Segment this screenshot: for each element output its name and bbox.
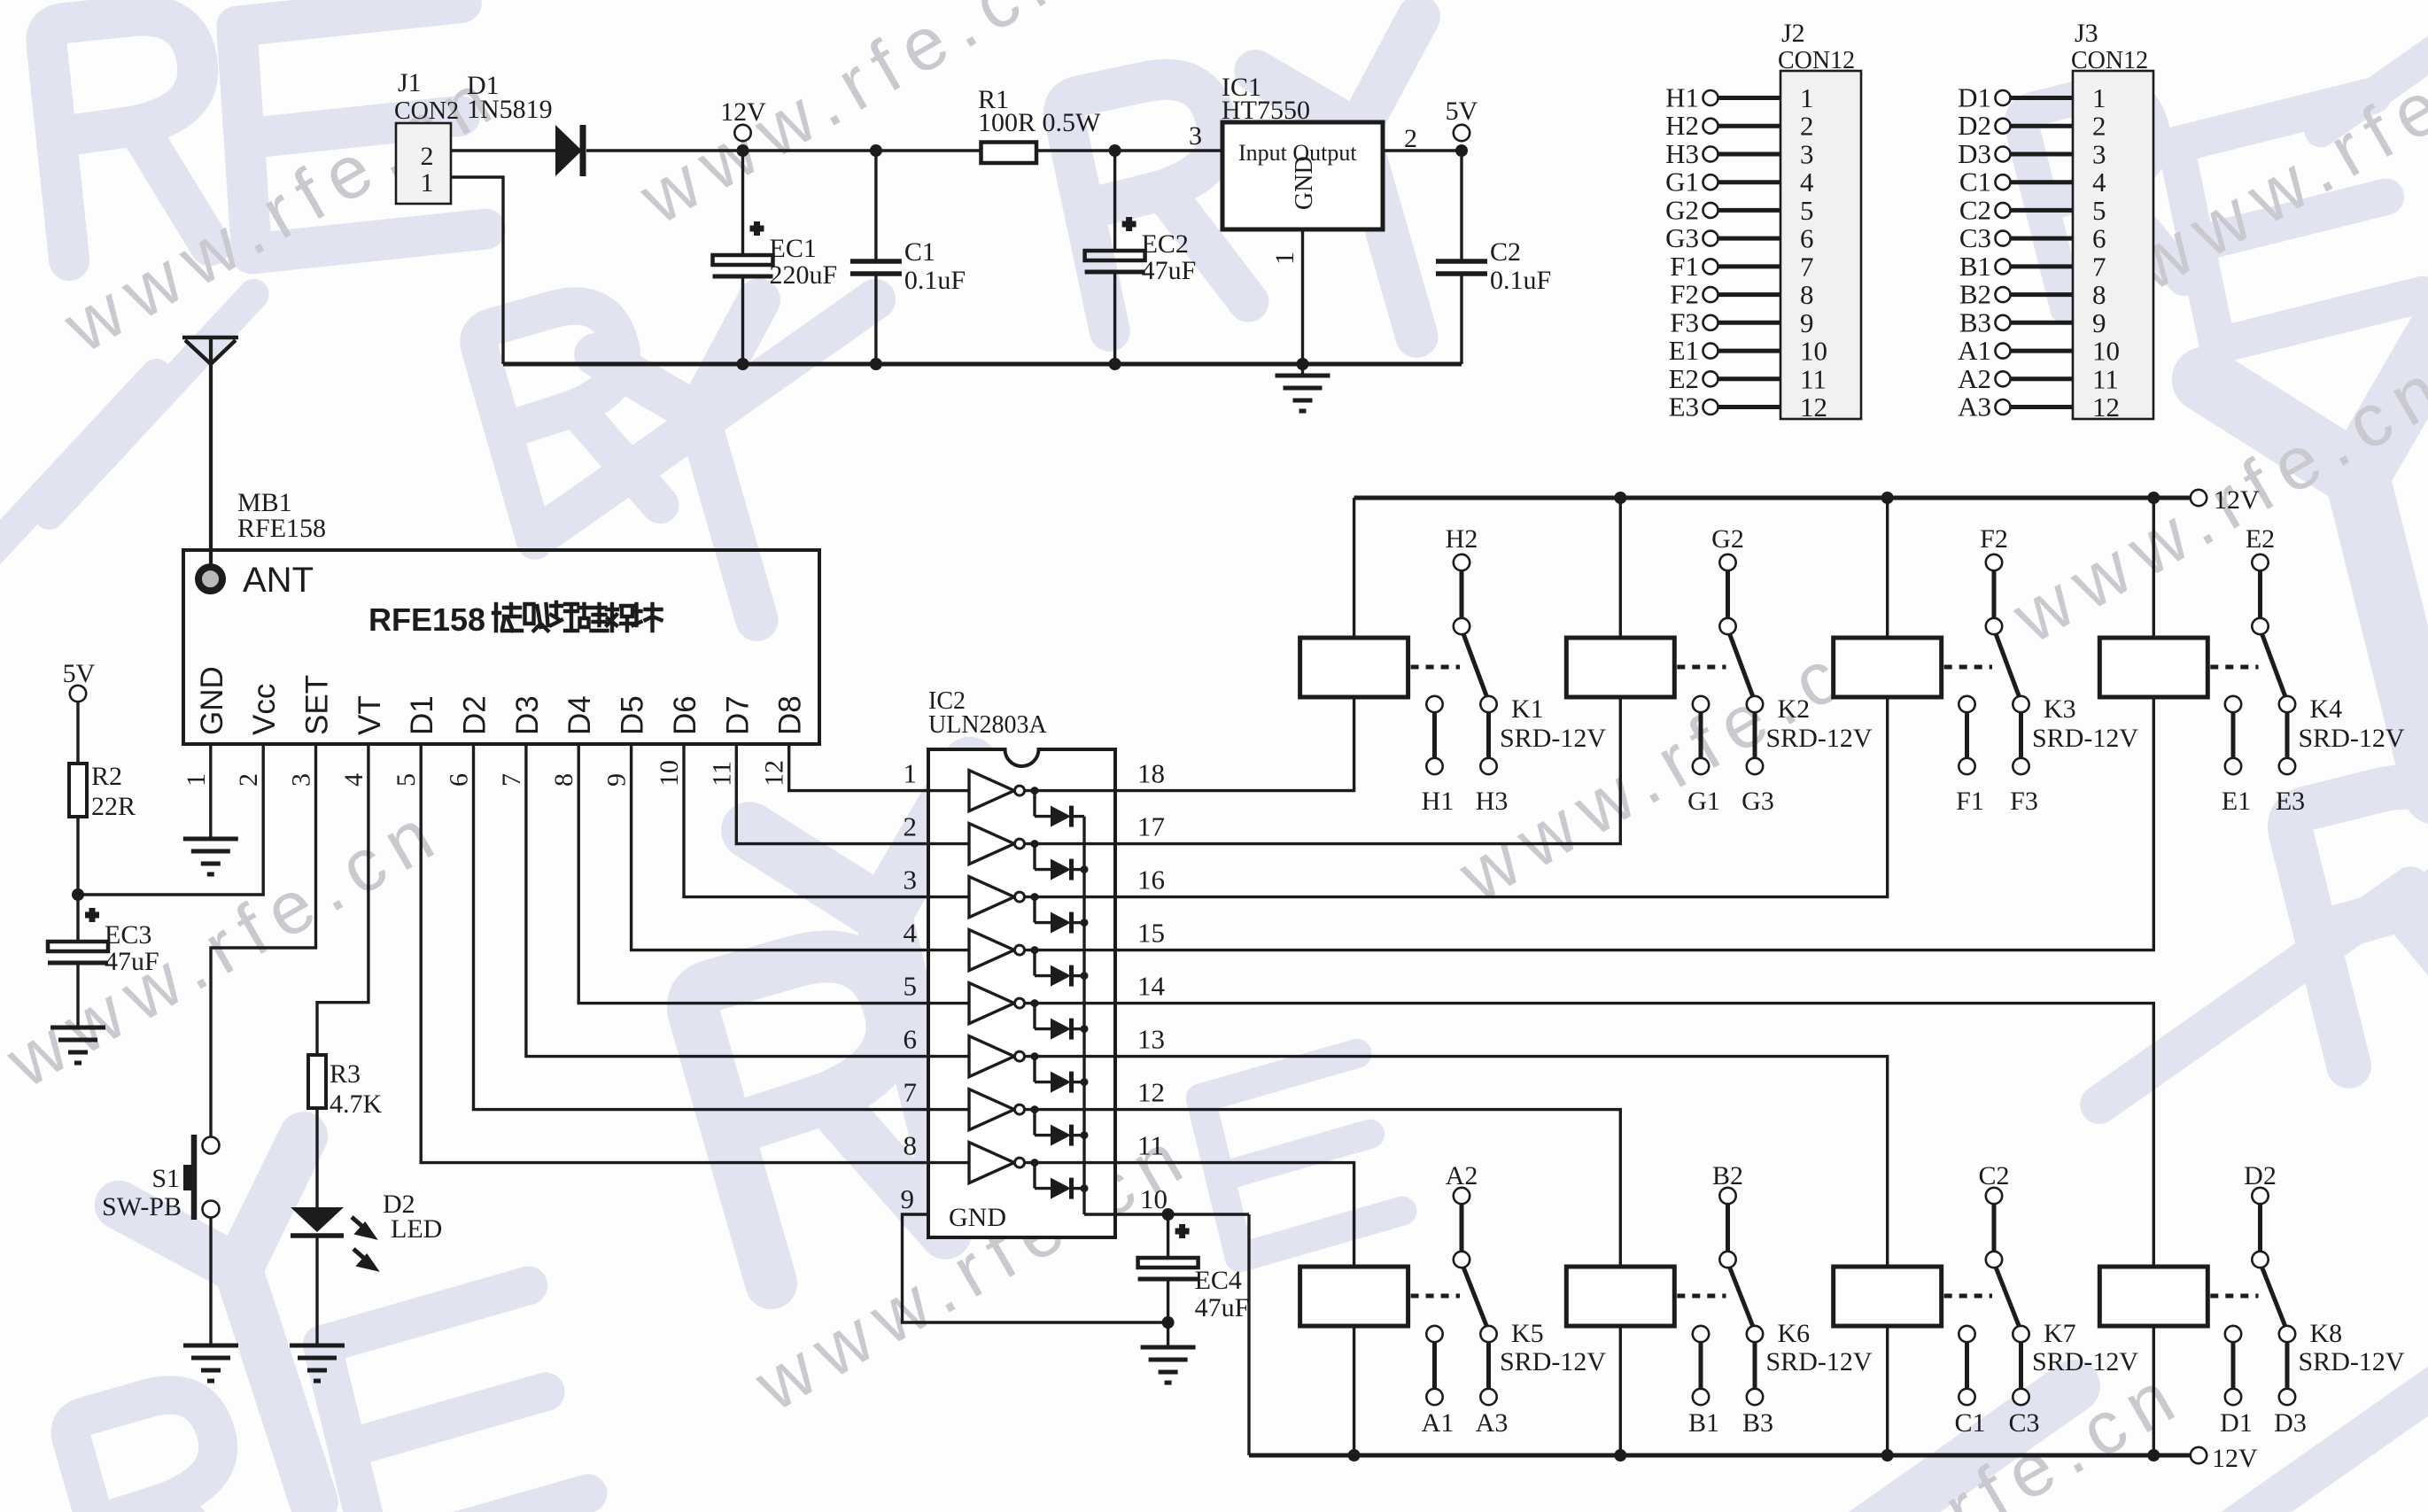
svg-text:HT7550: HT7550: [1222, 96, 1310, 125]
ground symbol (D2): [290, 1345, 345, 1381]
relay K5 coil: [1300, 1267, 1408, 1326]
svg-text:6: 6: [2092, 223, 2106, 254]
antenna: [182, 336, 238, 340]
svg-text:D1: D1: [2220, 1408, 2253, 1438]
clamp diode 6: [1031, 1052, 1039, 1060]
relay K4 contact E3: [2279, 696, 2295, 712]
ground symbol (MB1 GND): [183, 839, 238, 874]
dashed link K7: [1944, 1294, 1992, 1299]
wire S1 to ground: [209, 1217, 212, 1345]
diode common bus: [1082, 817, 1085, 1214]
svg-text:E2: E2: [2246, 524, 2275, 554]
clamp diode 5: [1031, 999, 1039, 1007]
svg-text:8: 8: [1800, 279, 1814, 310]
svg-text:K4: K4: [2310, 694, 2343, 724]
svg-text:0.1uF: 0.1uF: [1490, 266, 1551, 295]
svg-text:17: 17: [1137, 811, 1165, 842]
svg-text:D2: D2: [2244, 1161, 2277, 1190]
svg-text:4: 4: [1800, 167, 1814, 198]
svg-text:D6: D6: [668, 695, 702, 735]
svg-text:9: 9: [2092, 307, 2106, 338]
wire K3 coil to IC2 pin16: [1115, 697, 1888, 897]
svg-text:C1: C1: [1959, 167, 1991, 198]
wire J3 pin2: [2011, 124, 2074, 128]
svg-text:D2: D2: [458, 695, 493, 735]
svg-text:G3: G3: [1741, 787, 1774, 816]
svg-text:1: 1: [421, 168, 434, 198]
relay K2 pivot: [1719, 618, 1735, 634]
wire J2 pin5: [1718, 208, 1781, 213]
wire MB1 D1 to IC2 pin8: [421, 744, 928, 1163]
node EC4 top: [1162, 1208, 1175, 1221]
terminal A2: [1996, 371, 2011, 386]
svg-text:E3: E3: [2276, 787, 2305, 816]
capacitor EC1 220uF: [741, 151, 744, 255]
svg-text:GND: GND: [1291, 156, 1318, 210]
wire MB1 GND pin: [209, 744, 212, 839]
relay K8 contact D3: [2279, 1326, 2295, 1342]
buffer channel 4: [928, 949, 969, 951]
svg-text:15: 15: [1137, 918, 1165, 949]
relay K5 contact A1: [1426, 1326, 1442, 1342]
relay K8 moving arm: [2262, 1268, 2286, 1329]
svg-text:D5: D5: [616, 695, 650, 735]
wire J3 pin10: [2011, 349, 2074, 353]
svg-text:B1: B1: [1959, 251, 1991, 282]
svg-text:F2: F2: [1670, 279, 1699, 310]
svg-text:4: 4: [904, 918, 918, 949]
capacitor C1 0.1uF: [874, 151, 877, 261]
svg-text:K5: K5: [1511, 1319, 1544, 1348]
terminal C3: [1996, 231, 2011, 246]
svg-text:H2: H2: [1446, 524, 1478, 554]
svg-text:1: 1: [2092, 82, 2106, 113]
buffer channel 5: [928, 1002, 969, 1004]
svg-text:C2: C2: [1978, 1161, 2009, 1190]
svg-text:SRD-12V: SRD-12V: [2299, 724, 2405, 753]
clamp diode 4: [1031, 946, 1039, 954]
wire 12V rail to K2 coil: [1614, 492, 1626, 504]
wire J2 pin10: [1718, 349, 1781, 353]
svg-text:C3: C3: [2008, 1408, 2039, 1438]
terminal D3: [1996, 147, 2011, 162]
svg-text:G3: G3: [1665, 222, 1699, 253]
wire J3 pin1: [2011, 96, 2074, 100]
svg-text:D1: D1: [405, 695, 439, 735]
svg-text:100R 0.5W: 100R 0.5W: [978, 108, 1101, 137]
relay K3 pivot: [1986, 618, 2002, 634]
wire IC2 pin13 to K7 coil: [1115, 1057, 1888, 1267]
wire R3 to D2: [315, 1108, 318, 1207]
buffer channel 3: [928, 896, 969, 898]
svg-text:5V: 5V: [1446, 97, 1478, 126]
node C1 top: [870, 144, 882, 157]
wire IC1 pin2 to 5V node: [1383, 149, 1462, 151]
wire J1 pin2 to D1: [451, 149, 555, 151]
ground symbol (power): [1301, 364, 1304, 376]
svg-text:12: 12: [1800, 392, 1827, 423]
svg-text:E3: E3: [1669, 392, 1699, 423]
svg-text:10: 10: [2092, 336, 2120, 367]
svg-text:10: 10: [1800, 336, 1827, 367]
svg-text:VT: VT: [353, 695, 387, 735]
clamp diode 8: [1031, 1159, 1039, 1167]
svg-text:GND: GND: [949, 1203, 1006, 1232]
wire MB1 D5 to IC2 pin4: [632, 744, 928, 950]
capacitor EC4 47uF: [1167, 1214, 1169, 1258]
ANT pin: [198, 567, 222, 591]
relay K3 moving arm: [1996, 634, 2020, 699]
svg-text:11: 11: [1800, 363, 1827, 394]
terminal A3: [1996, 399, 2011, 415]
wire J2 pin3: [1718, 152, 1781, 157]
svg-text:10: 10: [1140, 1183, 1167, 1214]
svg-text:D2: D2: [1958, 110, 1991, 141]
svg-text:12V: 12V: [720, 97, 766, 127]
relay K1 moving arm: [1463, 634, 1487, 699]
wire IC2 pin10 (COM): [1115, 1213, 1249, 1215]
wire K8 coil to 12V rail: [2153, 1326, 2155, 1455]
capacitor EC2 47uF: [1113, 151, 1116, 251]
svg-text:A2: A2: [1446, 1161, 1478, 1190]
svg-text:A1: A1: [1422, 1408, 1454, 1438]
svg-text:A1: A1: [1958, 335, 1991, 366]
relay K3 contact F1: [1959, 696, 1974, 712]
svg-text:8: 8: [549, 773, 578, 787]
svg-text:7: 7: [1800, 251, 1814, 282]
svg-text:K8: K8: [2310, 1319, 2343, 1348]
svg-text:9: 9: [602, 773, 632, 787]
wire J2 pin6: [1718, 236, 1781, 241]
svg-text:F1: F1: [1956, 787, 1984, 816]
svg-text:6: 6: [904, 1024, 918, 1055]
node rail IC1 gnd: [1297, 358, 1309, 370]
svg-text:B2: B2: [1712, 1161, 1743, 1190]
relay K8 pivot: [2252, 1252, 2268, 1268]
svg-text:D8: D8: [773, 695, 808, 735]
svg-text:D7: D7: [720, 695, 755, 735]
relay K7 pivot: [1986, 1252, 2002, 1268]
relay K4 contact E1: [2225, 696, 2241, 712]
relay K6 coil: [1566, 1267, 1674, 1326]
relay K4 coil: [2099, 638, 2207, 697]
svg-text:G2: G2: [1711, 524, 1744, 554]
wire 12V rail to K4 coil: [2147, 492, 2160, 504]
svg-text:9: 9: [1800, 307, 1814, 338]
node 12V junction: [737, 144, 749, 157]
terminal E3: [1703, 399, 1718, 415]
dashed link K6: [1677, 1294, 1726, 1299]
svg-text:H3: H3: [1476, 787, 1509, 816]
switch S1 SW-PB: [203, 1137, 220, 1154]
svg-text:C3: C3: [1959, 222, 1991, 253]
svg-text:B2: B2: [1959, 279, 1991, 310]
relay K7 coil: [1834, 1267, 1942, 1326]
svg-text:H2: H2: [1665, 110, 1699, 141]
svg-text:13: 13: [1137, 1024, 1165, 1055]
ground symbol (EC3): [50, 1027, 105, 1063]
svg-text:7: 7: [497, 773, 526, 787]
relay K4 moving arm: [2262, 634, 2286, 699]
wire MB1 SET to S1: [211, 744, 316, 1137]
connector J1: [396, 123, 451, 204]
svg-text:14: 14: [1137, 971, 1166, 1002]
svg-text:D1: D1: [1958, 82, 1991, 113]
wire J2 pin12: [1718, 405, 1781, 409]
node 5V/EC3: [72, 888, 84, 901]
svg-text:3: 3: [1189, 121, 1202, 151]
LED D2: [291, 1207, 344, 1232]
resistor R3 4.7K: [308, 1055, 326, 1108]
svg-text:F3: F3: [1670, 306, 1699, 337]
dashed link K3: [1944, 665, 1992, 670]
svg-text:9: 9: [901, 1183, 915, 1214]
wire MB1 D8 to IC2 pin1: [789, 744, 928, 791]
buffer channel 8: [928, 1161, 969, 1164]
dashed link K1: [1411, 665, 1460, 670]
wire 12V node to R1: [743, 149, 981, 151]
svg-text:SRD-12V: SRD-12V: [2299, 1347, 2405, 1376]
svg-text:LED: LED: [391, 1214, 442, 1244]
buffer channel 6: [928, 1055, 969, 1058]
svg-text:11: 11: [707, 761, 736, 787]
terminal C1: [1996, 174, 2011, 190]
terminal B3: [1996, 315, 2011, 330]
terminal D2: [1996, 119, 2011, 134]
dashed link K2: [1677, 665, 1726, 670]
regulator IC1 HT7550: [1222, 122, 1383, 229]
wire K2 coil to IC2 pin17: [1115, 697, 1620, 844]
svg-text:RFE158: RFE158: [368, 601, 485, 638]
relay K1 contact H1: [1426, 696, 1442, 712]
svg-text:RFE158: RFE158: [237, 514, 326, 543]
relay K1 pivot: [1454, 618, 1470, 634]
svg-text:SRD-12V: SRD-12V: [1500, 724, 1606, 753]
svg-text:GND: GND: [195, 666, 229, 735]
terminal F2: [1703, 287, 1718, 302]
svg-text:7: 7: [904, 1077, 918, 1108]
svg-text:K3: K3: [2044, 694, 2076, 724]
wire IC2 COM to bottom rail: [1247, 1214, 1250, 1455]
svg-text:16: 16: [1137, 865, 1165, 896]
svg-text:J2: J2: [1781, 19, 1805, 48]
relay K1 coil: [1300, 638, 1408, 697]
svg-text:CON2: CON2: [394, 97, 459, 125]
svg-text:J3: J3: [2075, 19, 2098, 48]
terminal D1: [1996, 90, 2011, 105]
svg-text:EC3: EC3: [105, 920, 151, 950]
relay K6 pivot: [1719, 1252, 1735, 1268]
wire MB1 D7 to IC2 pin2: [736, 744, 928, 844]
svg-text:J1: J1: [398, 68, 422, 97]
wire K1 coil to IC2 pin18: [1115, 697, 1354, 791]
wire J3 pin4: [2011, 180, 2074, 184]
terminal E1: [1703, 344, 1718, 359]
svg-text:6: 6: [1800, 223, 1814, 254]
relay K2 coil: [1566, 638, 1674, 697]
svg-text:3: 3: [287, 773, 316, 787]
terminal A1: [1996, 344, 2011, 359]
ground rail (power section): [503, 362, 1462, 367]
capacitor EC3 47uF: [85, 908, 99, 922]
clamp diode 7: [1031, 1105, 1039, 1113]
svg-text:3: 3: [904, 865, 918, 896]
svg-text:10: 10: [655, 760, 684, 787]
clamp diode 1: [1031, 787, 1039, 795]
svg-text:4.7K: 4.7K: [330, 1089, 383, 1119]
relay K7 contact C3: [2013, 1326, 2029, 1342]
wire J3 pin3: [2011, 152, 2074, 157]
svg-text:5V: 5V: [63, 659, 96, 688]
wire J2 pin8: [1718, 292, 1781, 297]
svg-text:12: 12: [1137, 1077, 1165, 1108]
wire J2 pin1: [1718, 96, 1781, 100]
resistor R2 22R: [76, 702, 79, 764]
svg-text:C2: C2: [1959, 194, 1991, 225]
wire J2 pin9: [1718, 321, 1781, 325]
relay K7 moving arm: [1996, 1268, 2020, 1329]
svg-text:C2: C2: [1490, 237, 1521, 267]
relay K3 coil: [1834, 638, 1942, 697]
svg-text:K6: K6: [1778, 1319, 1811, 1348]
node EC2 top: [1109, 144, 1121, 157]
node 5V junction: [1455, 144, 1468, 157]
wire J3 pin8: [2011, 292, 2074, 297]
relay K7 contact C1: [1959, 1326, 1974, 1342]
terminal H3: [1703, 147, 1718, 162]
node rail C1: [870, 358, 882, 370]
svg-text:2: 2: [234, 773, 263, 787]
terminal H1: [1703, 90, 1718, 105]
terminal G3: [1703, 231, 1718, 246]
svg-text:6: 6: [445, 773, 474, 787]
svg-text:H3: H3: [1665, 138, 1699, 169]
svg-text:SRD-12V: SRD-12V: [2032, 1347, 2138, 1376]
svg-text:SRD-12V: SRD-12V: [2032, 724, 2138, 753]
svg-text:SRD-12V: SRD-12V: [1766, 1347, 1873, 1376]
terminal B1: [1996, 259, 2011, 274]
wire K7 coil to 12V rail: [1886, 1326, 1889, 1455]
svg-text:0.1uF: 0.1uF: [904, 266, 966, 295]
wire IC2 pin14 to K8 coil: [1115, 1004, 2153, 1267]
wire MB1 Vcc to 5V rail: [78, 744, 263, 895]
12V top rail: [1354, 496, 2191, 500]
terminal F3: [1703, 315, 1718, 330]
terminal G1: [1703, 174, 1718, 190]
relay K5 moving arm: [1463, 1268, 1487, 1329]
svg-text:11: 11: [2092, 363, 2119, 394]
dashed link K8: [2210, 1294, 2258, 1299]
svg-text:12: 12: [760, 760, 789, 787]
svg-text:C1: C1: [1954, 1408, 1985, 1438]
dashed link K4: [2210, 665, 2258, 670]
wire J1 pin1 down to ground rail: [451, 177, 503, 364]
buffer channel 1: [928, 789, 969, 792]
terminal F1: [1703, 259, 1718, 274]
svg-text:18: 18: [1137, 758, 1165, 789]
svg-text:5: 5: [392, 773, 421, 787]
svg-text:47uF: 47uF: [105, 947, 159, 976]
relay K2 contact G1: [1693, 696, 1709, 712]
svg-text:F3: F3: [2010, 787, 2038, 816]
svg-text:SRD-12V: SRD-12V: [1766, 724, 1873, 753]
wire MB1 D3 to IC2 pin6: [526, 744, 928, 1057]
svg-text:R2: R2: [91, 762, 122, 791]
svg-text:11: 11: [1137, 1130, 1164, 1161]
svg-text:3: 3: [1800, 139, 1814, 170]
capacitor C2 0.1uF: [1460, 151, 1462, 261]
svg-text:47uF: 47uF: [1142, 256, 1197, 285]
svg-text:1: 1: [1270, 252, 1299, 265]
resistor R1 100R 0.5W: [981, 143, 1037, 164]
wire MB1 D6 to IC2 pin3: [684, 744, 928, 897]
svg-text:K2: K2: [1778, 694, 1811, 724]
relay K6 contact B1: [1693, 1326, 1709, 1342]
12V terminal: [734, 125, 750, 141]
wire K4 coil to IC2 pin15: [1115, 697, 2153, 950]
svg-text:3: 3: [2092, 139, 2106, 170]
svg-text:E2: E2: [1669, 363, 1699, 394]
svg-text:D3: D3: [510, 695, 545, 735]
wire K5 coil to 12V rail: [1353, 1326, 1355, 1455]
diode D1 1N5819: [555, 125, 582, 176]
5V terminal (left): [70, 686, 86, 702]
svg-text:C1: C1: [904, 237, 935, 267]
wire J2 pin2: [1718, 124, 1781, 128]
wire MB1 D2 to IC2 pin7: [474, 744, 929, 1110]
ground symbol (EC4): [1167, 1322, 1169, 1347]
wire IC2 pin12 to K6 coil: [1115, 1110, 1620, 1267]
svg-text:1: 1: [904, 758, 918, 789]
clamp diode 2: [1031, 840, 1039, 848]
wire 12V rail to K3 coil: [1881, 492, 1894, 504]
wire K6 coil to 12V rail: [1619, 1326, 1622, 1455]
terminal B2: [1996, 287, 2011, 302]
svg-text:EC2: EC2: [1142, 229, 1189, 259]
node rail EC1: [737, 358, 749, 370]
terminal H2: [1703, 119, 1718, 134]
svg-text:R3: R3: [330, 1059, 361, 1089]
svg-text:ULN2803A: ULN2803A: [928, 711, 1048, 739]
wire J3 pin7: [2011, 264, 2074, 268]
svg-text:SET: SET: [300, 675, 335, 735]
svg-text:A3: A3: [1476, 1408, 1509, 1438]
wire J3 pin5: [2011, 208, 2074, 213]
svg-text:1: 1: [182, 773, 211, 787]
svg-text:12V: 12V: [2212, 1444, 2258, 1473]
svg-text:220uF: 220uF: [770, 260, 838, 290]
svg-text:12: 12: [2092, 392, 2120, 423]
svg-text:G2: G2: [1665, 194, 1699, 225]
terminal G2: [1703, 203, 1718, 218]
relay K2 moving arm: [1730, 634, 1754, 699]
svg-text:2: 2: [1404, 124, 1417, 153]
svg-text:F1: F1: [1670, 251, 1699, 282]
svg-text:D3: D3: [2274, 1408, 2307, 1438]
wire IC2 pin11 to K5 coil: [1115, 1163, 1354, 1267]
svg-text:B3: B3: [1742, 1408, 1773, 1438]
svg-text:F2: F2: [1980, 524, 2008, 554]
svg-text:SRD-12V: SRD-12V: [1500, 1347, 1606, 1376]
wire J2 pin4: [1718, 180, 1781, 184]
svg-text:H1: H1: [1422, 787, 1454, 816]
svg-text:A2: A2: [1958, 363, 1991, 394]
svg-text:ANT: ANT: [243, 561, 314, 600]
relay K8 coil: [2099, 1267, 2207, 1326]
buffer channel 2: [928, 842, 969, 845]
svg-text:5: 5: [2092, 195, 2106, 226]
wire R1 to IC1 pin3: [1036, 149, 1222, 151]
